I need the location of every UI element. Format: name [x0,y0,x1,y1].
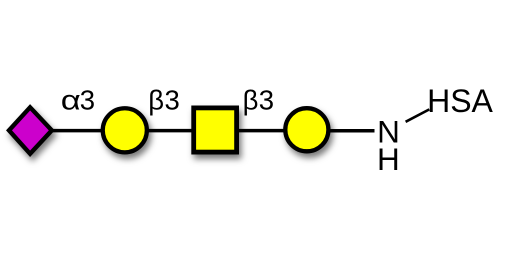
Neu5Ac diamond [9,107,52,154]
wire beta3 linkage (circle 1 to square) [146,129,194,133]
svg-text:3: 3 [165,85,180,116]
svg-text:HSA: HSA [427,83,493,119]
wire alpha3 linkage (diamond to circle 1) [52,129,103,133]
Gal circle 1 [103,108,147,152]
wire circle 2 to amine N [328,129,375,133]
svg-text:β: β [148,85,164,116]
svg-text:H: H [377,141,400,177]
svg-text:α: α [61,85,81,116]
Gal circle 2 [285,108,328,151]
GalNAc square [194,108,237,152]
wire beta3 linkage (square to circle 2) [236,129,286,133]
svg-text:β: β [243,85,259,116]
bond N to HSA [406,109,430,121]
svg-text:3: 3 [259,85,274,116]
svg-text:3: 3 [80,85,95,116]
